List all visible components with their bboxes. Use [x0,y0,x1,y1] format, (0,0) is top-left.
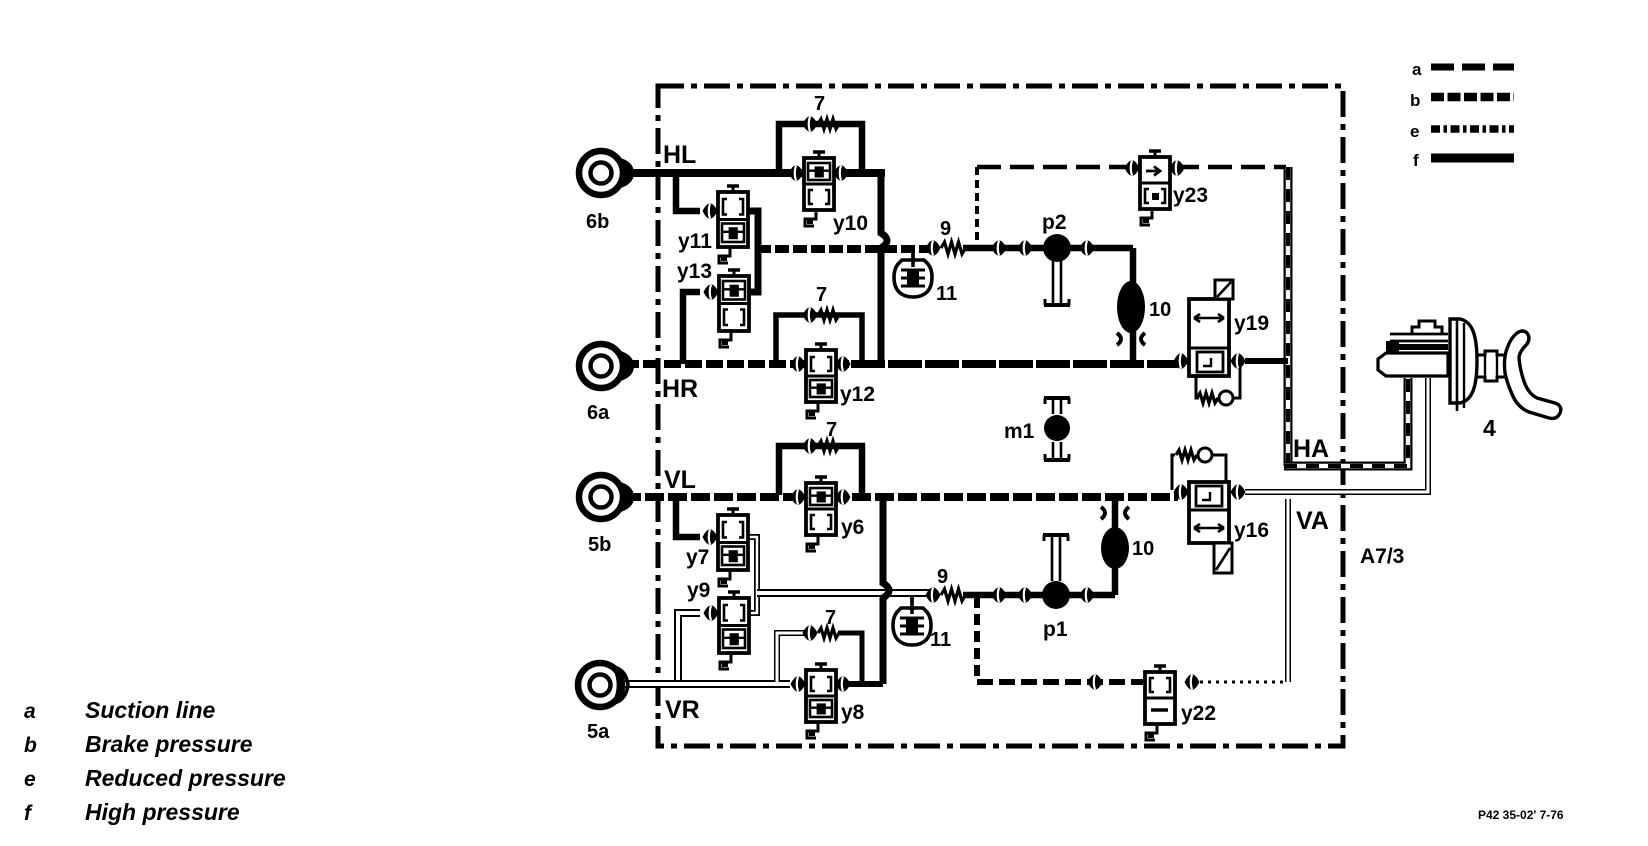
svg-text:6b: 6b [586,211,609,233]
valve y8 [791,664,851,738]
svg-text:p1: p1 [1043,618,1068,641]
svg-text:p2: p2 [1042,211,1067,234]
svg-text:VA: VA [1296,507,1329,535]
wheel 6b [579,151,634,195]
wheel 5a [578,663,628,707]
fitting suction line left [1088,674,1103,690]
wire y12 bypass loop [776,315,862,362]
wire HR line (valve y12 to valve y19) [851,360,1178,368]
wire accumulator 11 stem (lower) [910,596,914,614]
svg-text:A7/3: A7/3 [1360,545,1404,568]
wire accumulator 11 stem [911,249,915,267]
ports y16 [1174,484,1189,500]
wire y16 pilot loop with spring [1172,455,1175,490]
brake unit 4: pushrod [1477,351,1505,381]
wire junction vertical VL-VR [883,497,889,684]
valve y12 [791,344,851,418]
valve y16 pressure regulator [1189,482,1229,543]
svg-text:HA: HA [1293,435,1329,463]
svg-text:P42 35-02' 7-76: P42 35-02' 7-76 [1478,808,1564,822]
pump p2 [1043,234,1071,262]
svg-text:VR: VR [665,696,700,724]
svg-text:Reduced pressure: Reduced pressure [85,765,286,791]
wire right riser pipe (suction/brake to HA) [1284,167,1293,466]
svg-text:y7: y7 [686,546,709,569]
wire suction dotted (y22 to VA return) [1200,681,1288,684]
svg-text:6a: 6a [587,402,610,424]
valve y19 pressure regulator [1189,299,1229,376]
svg-text:11: 11 [936,283,957,305]
accumulator 10 (upper) [1117,281,1145,333]
svg-text:Brake pressure: Brake pressure [85,731,253,757]
svg-text:y9: y9 [687,579,710,602]
svg-text:HL: HL [663,141,696,169]
svg-text:y6: y6 [841,516,864,539]
svg-text:y16: y16 [1234,519,1269,542]
wire branch HL to valve y11 [676,173,700,211]
wire pump p2 suction line [963,245,1133,252]
svg-text:11: 11 [930,629,951,651]
strainer above p1 [1043,535,1069,581]
accumulator 11 (lower) [893,596,931,645]
svg-text:7: 7 [816,284,827,306]
svg-text:y13: y13 [677,260,712,283]
fitting diamonds p2 line [992,240,1007,256]
wire pump p1 suction line [963,592,1115,599]
svg-text:High pressure: High pressure [85,799,240,825]
throttle 7 over y10 [803,116,818,132]
dash-dot boundary box A7/3 [658,86,1343,746]
wire mid brake line y11 to throttle 9 [757,245,930,253]
svg-text:Suction line: Suction line [85,697,216,723]
strainer below p2 [1044,260,1070,305]
wire junction vertical HL-HR [881,173,887,364]
svg-text:y12: y12 [840,383,875,406]
wire VA pipe to booster [1245,378,1428,492]
wire y8 bypass loop [777,633,806,682]
svg-text:9: 9 [937,566,948,588]
wire p2 output to accumulator 10 [1130,248,1137,364]
svg-text:y10: y10 [833,212,868,235]
wire reduced pressure line y7 to throttle 9 [757,589,930,597]
wire y13 left port to HR line [683,292,700,364]
wire VL line (brake pressure, wheel 5b to valve y16) [622,493,1178,501]
accumulator 11 (upper) [894,248,932,297]
wire HL line (high pressure, wheel 6b to valve y10) [622,169,885,177]
svg-text:5b: 5b [588,534,611,556]
svg-text:VL: VL [664,466,696,494]
accumulator 10 (lower) [1101,527,1129,569]
fitting suction line right [1185,674,1200,690]
svg-text:b: b [24,734,37,757]
throttle 7 over y6 [803,438,818,454]
svg-text:y23: y23 [1173,184,1208,207]
wire VR line (reduced pressure) [622,680,790,688]
svg-text:f: f [1413,151,1419,170]
svg-text:5a: 5a [587,721,610,743]
throttle 9 (lower) [926,587,941,603]
throttle 7 over y12 [803,307,818,323]
wheel 6a [579,344,634,388]
brake unit 4: vacuum booster disc [1450,319,1477,403]
wire y8 right port to junction [848,681,883,687]
throttle 7 over y8 [803,625,818,641]
svg-text:7: 7 [825,607,836,629]
brake unit 4: master cylinder body [1390,334,1448,341]
valve y9 [704,592,750,669]
wire y11-y13 right link [747,211,758,292]
wire suction riser to p2 line [975,167,979,248]
wire VA return drop [1285,499,1291,682]
orifice below accumulator 10 [1117,333,1145,345]
wire y6 bypass loop [779,446,862,495]
wheel 5b [579,475,634,519]
svg-text:7: 7 [826,419,837,441]
valve y11 [703,186,749,263]
ports y19 [1174,353,1189,369]
svg-text:9: 9 [940,218,951,240]
wire p1 output to accumulator 10 and VL [1112,497,1119,595]
svg-text:a: a [24,700,36,723]
valve y7 [703,509,749,586]
valve y23 [1140,157,1170,209]
wire y19 to right riser [1245,358,1288,364]
svg-text:y11: y11 [678,230,712,253]
wire branch VL to valve y7 [676,497,700,537]
svg-text:e: e [1410,122,1419,141]
adjuster tab y19 [1215,280,1233,299]
motor m1 [1044,415,1070,441]
adjuster tab y16 [1214,543,1232,573]
svg-text:y22: y22 [1181,702,1216,725]
wire HA pipe to booster [1284,378,1408,466]
svg-text:f: f [24,802,33,825]
valve y13 [704,270,750,347]
svg-text:7: 7 [814,93,825,115]
svg-text:y8: y8 [841,701,865,724]
wire y9 left port to VR line [678,613,700,681]
svg-text:4: 4 [1483,415,1496,441]
wire suction line a (bottom) [977,679,1143,685]
fitting diamonds p1 line [992,587,1007,603]
wire suction line a (top) [977,165,1286,170]
brake unit 4: pedal [1504,331,1560,418]
svg-text:10: 10 [1149,299,1171,321]
wire y7-y9 right link [747,537,757,613]
wire HR line (brake pressure, wheel 6a to valve y12) [622,360,851,368]
throttle 9 (upper) [926,240,941,256]
svg-text:y19: y19 [1234,312,1269,335]
valve y6 [791,477,851,551]
wire suction drop to bottom line [974,597,980,682]
pump p1 [1042,581,1070,609]
wire y10 bypass loop [779,124,862,171]
svg-text:m1: m1 [1004,420,1035,443]
svg-text:a: a [1412,60,1422,79]
valve y22 [1145,672,1175,724]
orifice above accumulator 10 [1101,507,1129,519]
svg-text:e: e [24,768,36,791]
svg-text:b: b [1410,91,1420,110]
valve y10 [789,152,849,226]
brake unit 4: master cylinder reservoir cap [1412,321,1442,334]
svg-text:10: 10 [1132,538,1154,560]
wire y19 pilot loop with spring [1196,376,1199,398]
svg-text:HR: HR [662,375,698,403]
